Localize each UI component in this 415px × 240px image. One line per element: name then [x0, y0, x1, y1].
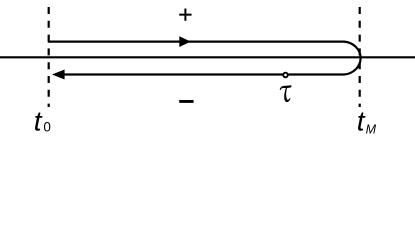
plus label (+ branch)	[179, 9, 191, 21]
dashed line at t0	[48, 7, 50, 107]
svg-text:0: 0	[43, 119, 51, 134]
arrowhead on lower branch (leftward)	[52, 70, 65, 80]
svg-text:M: M	[366, 122, 377, 136]
wire: contour upper branch, right turn-around, lower branch	[48, 42, 361, 75]
node tau marker (open circle)	[283, 73, 288, 78]
arrowhead on upper branch (rightward)	[179, 36, 191, 47]
svg-text:t: t	[34, 105, 43, 136]
svg-text:t: t	[357, 105, 366, 136]
label tau (drawn glyph)	[280, 85, 292, 102]
dashed line at tM	[359, 7, 361, 107]
minus label (- branch)	[179, 100, 193, 103]
time axis	[0, 56, 415, 58]
